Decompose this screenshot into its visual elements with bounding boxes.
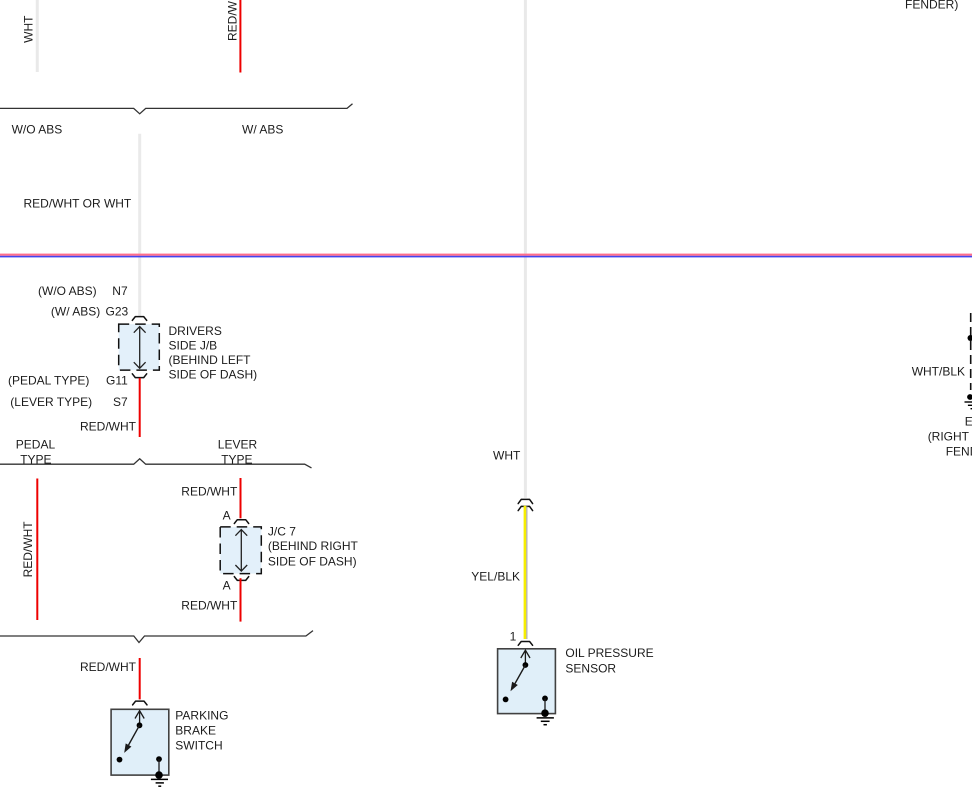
pin arc (parking brake switch) xyxy=(133,701,147,705)
svg-text:(LEVER TYPE): (LEVER TYPE) xyxy=(10,395,92,409)
dashed wire WHT/BLK (right edge, cut) xyxy=(970,313,972,390)
svg-text:W/ ABS: W/ ABS xyxy=(242,122,283,136)
svg-text:OIL PRESSURE: OIL PRESSURE xyxy=(565,646,653,660)
wire W3 WHT (middle column) xyxy=(524,0,527,498)
svg-text:LEVER: LEVER xyxy=(218,438,258,452)
svg-text:A: A xyxy=(223,579,231,593)
switch arm diagonal with arrowhead xyxy=(129,725,140,745)
component S1 PARKING BRAKE SWITCH xyxy=(111,709,169,779)
wire W10 YEL/BLK xyxy=(524,506,527,639)
pin arc (oil pressure sensor) xyxy=(518,642,532,646)
switch arm arrow up xyxy=(521,650,530,665)
svg-text:RED/WHT: RED/WHT xyxy=(21,521,35,578)
svg-text:G11: G11 xyxy=(106,373,128,387)
svg-text:RED/WHT: RED/WHT xyxy=(80,660,137,674)
svg-text:W/O ABS: W/O ABS xyxy=(12,122,63,136)
svg-text:PEDAL: PEDAL xyxy=(16,438,56,452)
switch arm diagonal with arrowhead xyxy=(515,665,525,684)
switch contact dot xyxy=(503,697,509,703)
svg-text:DRIVERS: DRIVERS xyxy=(169,324,222,338)
wire W1 WHT (top left) xyxy=(36,0,39,72)
svg-text:SIDE OF DASH): SIDE OF DASH) xyxy=(169,368,258,382)
svg-text:RED/WHT: RED/WHT xyxy=(181,484,238,498)
divider hot line (pink over blue) xyxy=(0,254,972,256)
svg-text:SIDE J/B: SIDE J/B xyxy=(169,338,218,352)
svg-text:SIDE OF DASH): SIDE OF DASH) xyxy=(268,555,357,569)
svg-text:S7: S7 xyxy=(113,395,128,409)
switch pivot dot xyxy=(137,722,143,728)
svg-text:(W/O ABS): (W/O ABS) xyxy=(38,284,97,298)
ground pin wire xyxy=(544,698,546,713)
wire W7 RED/WHT (lever branch upper) xyxy=(240,478,242,518)
svg-text:WHT: WHT xyxy=(22,15,36,43)
brace B1 merge W/O ABS + W/ ABS xyxy=(0,104,353,114)
svg-text:WHT/BLK: WHT/BLK xyxy=(912,365,965,379)
svg-text:BRAKE: BRAKE xyxy=(175,724,216,738)
svg-text:RED/WHT OR WHT: RED/WHT OR WHT xyxy=(24,196,132,210)
svg-text:PARKING: PARKING xyxy=(175,708,228,722)
ground symbol E (cut at edge) xyxy=(965,402,972,409)
brace B2 split pedal/lever xyxy=(0,459,312,468)
wire W5 RED/WHT (J/B to split brace) xyxy=(139,378,141,437)
black stripe of YEL/BLK xyxy=(526,506,528,639)
wire W2 RED/WHT (top) xyxy=(239,0,241,73)
svg-text:YEL/BLK: YEL/BLK xyxy=(471,570,520,584)
wire W8 RED/WHT (lever branch lower) xyxy=(240,578,242,621)
switch pivot dot xyxy=(523,662,529,668)
ground pin wire xyxy=(158,759,160,775)
svg-text:SWITCH: SWITCH xyxy=(175,739,222,753)
inline connector (WHT to YEL/BLK) xyxy=(518,499,532,503)
junction box U1 DRIVERS SIDE J/B xyxy=(119,324,160,370)
svg-text:(RIGHT: (RIGHT xyxy=(928,429,970,443)
switch contact dot xyxy=(117,757,123,763)
pin arc G23 (top of J/B) xyxy=(132,317,146,321)
svg-text:FENDER): FENDER) xyxy=(946,444,972,458)
svg-text:N7: N7 xyxy=(112,284,128,298)
wire W4 RED/WHT OR WHT xyxy=(138,134,141,316)
svg-text:1: 1 xyxy=(510,629,517,643)
svg-text:RED/WHT: RED/WHT xyxy=(226,0,240,41)
double arrow inside J/B xyxy=(134,327,146,369)
brace B3 merge to parking brake switch xyxy=(0,631,313,643)
ground symbol (parking brake switch) xyxy=(151,779,168,786)
svg-text:E: E xyxy=(965,414,972,428)
wire W6 RED/WHT (left pedal branch) xyxy=(36,479,38,621)
svg-text:J/C 7: J/C 7 xyxy=(268,524,296,538)
double arrow inside J/C 7 xyxy=(235,530,247,572)
svg-text:G23: G23 xyxy=(106,304,129,318)
wire W9 RED/WHT (to parking brake switch) xyxy=(139,658,141,699)
ground symbol (oil pressure sensor) xyxy=(537,718,554,725)
junction connector U2 J/C 7 xyxy=(220,527,261,574)
pin cup G11 (bottom of J/B) xyxy=(132,374,146,378)
svg-text:FENDER): FENDER) xyxy=(905,0,958,12)
svg-text:(W/ ABS): (W/ ABS) xyxy=(51,304,100,318)
svg-text:RED/WHT: RED/WHT xyxy=(181,598,238,612)
switch arm arrow up xyxy=(135,711,144,726)
component S2 OIL PRESSURE SENSOR xyxy=(498,649,556,717)
svg-text:WHT: WHT xyxy=(493,448,521,462)
ground pin dot xyxy=(542,696,548,702)
svg-text:SENSOR: SENSOR xyxy=(565,662,616,676)
ground junction dot xyxy=(541,709,549,717)
svg-text:A: A xyxy=(223,509,231,523)
pin cup A (bottom of J/C 7) xyxy=(234,577,248,581)
svg-text:(BEHIND LEFT: (BEHIND LEFT xyxy=(169,353,252,367)
svg-text:(PEDAL TYPE): (PEDAL TYPE) xyxy=(8,373,89,387)
svg-text:(BEHIND RIGHT: (BEHIND RIGHT xyxy=(268,539,359,553)
ground dot E (right edge) xyxy=(967,394,972,400)
svg-text:RED/WHT: RED/WHT xyxy=(80,419,137,433)
ground pin dot xyxy=(156,756,162,762)
pin arc A (top of J/C 7) xyxy=(234,520,248,524)
junction dot on WHT/BLK xyxy=(968,335,972,341)
ground junction dot xyxy=(155,771,163,779)
